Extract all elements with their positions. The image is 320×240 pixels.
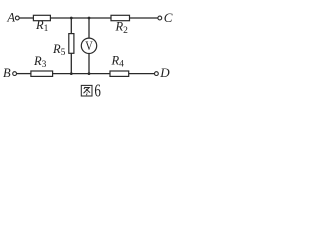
svg-text:A: A xyxy=(6,11,15,25)
node A terminal circle xyxy=(15,16,19,20)
wire R3 to R4 xyxy=(53,73,110,75)
resistor R3 xyxy=(31,71,53,76)
resistor R2 xyxy=(111,15,130,20)
wire R5 to bottom rail xyxy=(70,53,72,73)
svg-text:R5: R5 xyxy=(52,42,66,58)
wire B to R3 xyxy=(17,73,31,75)
wire R4 to D xyxy=(129,73,155,75)
junction dot top-left xyxy=(70,17,73,20)
wire voltmeter to bottom rail xyxy=(88,54,90,74)
svg-text:R4: R4 xyxy=(111,53,125,69)
wire A to R1 xyxy=(19,17,33,19)
svg-text:R3: R3 xyxy=(33,54,47,70)
resistor R5 xyxy=(69,34,74,54)
node B terminal circle xyxy=(13,72,17,76)
node D terminal circle xyxy=(155,72,159,76)
resistor R4 xyxy=(110,71,129,76)
wire R1 to R2 xyxy=(50,17,111,19)
junction dot top-right xyxy=(88,17,91,20)
wire top rail to voltmeter xyxy=(88,18,90,38)
svg-text:B: B xyxy=(3,66,11,80)
svg-text:6: 6 xyxy=(94,81,101,101)
svg-text:D: D xyxy=(159,65,170,80)
wire top rail to R5 xyxy=(70,18,72,34)
resistor R1 xyxy=(33,15,50,20)
wire R2 to C xyxy=(130,17,158,19)
voltmeter U1 circle xyxy=(81,38,96,53)
caption glyph 图 xyxy=(81,85,92,96)
svg-text:V: V xyxy=(85,39,93,53)
svg-text:R2: R2 xyxy=(115,20,129,36)
svg-text:C: C xyxy=(164,10,173,25)
node C terminal circle xyxy=(158,16,162,20)
junction dot bottom-left xyxy=(70,72,73,75)
junction dot bottom-right xyxy=(88,72,91,75)
